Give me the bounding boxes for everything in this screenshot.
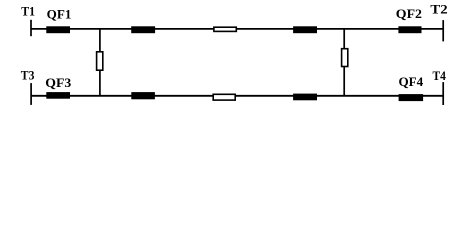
breaker QF1 (closed) [46,26,70,33]
svg-text:QF1: QF1 [47,7,72,21]
terminal T1 [30,20,32,36]
svg-text:T1: T1 [21,5,35,19]
svg-text:T4: T4 [433,69,447,83]
switch bottom-right (closed) [293,94,317,101]
top bus wire T1 to T2 [31,28,443,30]
terminal T3 [30,83,32,105]
tie switch right (open) [342,49,348,67]
svg-text:T2: T2 [430,2,447,16]
tie branch right wire [343,29,345,96]
terminal T4 [442,82,444,105]
switch bottom-left (closed) [131,92,155,99]
breaker QF2 (closed) [398,26,421,33]
terminal T2 [442,20,444,41]
svg-text:QF4: QF4 [399,75,424,89]
svg-text:QF2: QF2 [396,7,422,21]
breaker QF3 (closed) [46,92,70,99]
tie branch left wire [99,29,101,96]
sectionalizing switch top (open) [214,27,236,31]
switch top-right (closed) [293,26,317,33]
sectionalizing switch bottom (open) [213,94,235,100]
svg-text:T3: T3 [21,68,35,82]
bottom bus wire T3 to T4 [31,95,443,97]
breaker QF4 (closed) [399,94,424,101]
tie switch left (open) [97,52,103,70]
switch top-left (closed) [131,26,155,33]
svg-text:QF3: QF3 [45,76,71,90]
